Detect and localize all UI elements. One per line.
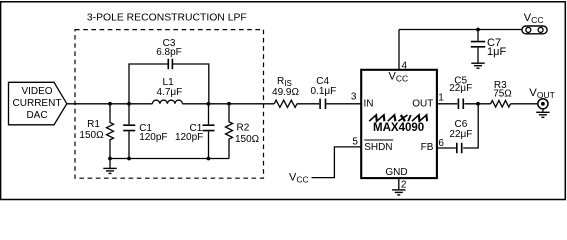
ground (VOUT) <box>536 112 549 117</box>
wire: OUT to C5 <box>437 103 457 105</box>
svg-text:150Ω: 150Ω <box>79 130 104 141</box>
svg-text:CURRENT: CURRENT <box>13 98 62 109</box>
capacitor C3 <box>168 59 172 69</box>
svg-text:R1: R1 <box>87 119 100 130</box>
dashed LPF box <box>75 30 264 179</box>
svg-text:VCC: VCC <box>289 171 309 184</box>
svg-text:L1: L1 <box>163 77 175 88</box>
ground (IC) <box>392 190 405 195</box>
wire: FB to C6 <box>437 147 456 149</box>
ground (filter) <box>109 159 111 168</box>
svg-text:GND: GND <box>385 167 407 178</box>
svg-text:49.9Ω: 49.9Ω <box>272 87 299 98</box>
node A (R1 top) <box>108 102 112 106</box>
node rail-R1 <box>108 157 112 161</box>
svg-text:120pF: 120pF <box>139 132 167 143</box>
resistor R2 <box>226 104 233 159</box>
node B (L1/C3/C1 left) <box>127 102 131 106</box>
svg-text:6.8pF: 6.8pF <box>156 47 182 58</box>
svg-text:150Ω: 150Ω <box>235 134 260 145</box>
MAXIM logo <box>369 115 429 121</box>
svg-text:C6: C6 <box>455 119 468 130</box>
svg-text:1: 1 <box>438 93 444 104</box>
resistor R1 <box>107 104 114 159</box>
DAC symbol <box>9 82 67 125</box>
op-amp U1 MAX4090 box <box>361 70 437 178</box>
capacitor C1 (right) <box>208 104 210 159</box>
svg-text:22μF: 22μF <box>449 129 472 140</box>
wire: pin2 gnd <box>398 178 400 189</box>
svg-text:4: 4 <box>402 60 408 71</box>
svg-text:VIDEO: VIDEO <box>21 86 52 97</box>
node D (R2 top) <box>227 102 231 106</box>
capacitor C3 branch wires <box>129 64 209 104</box>
wire: C5 to node <box>464 103 490 105</box>
resistor R3 <box>491 101 511 108</box>
VCC terminal <box>522 26 547 34</box>
wire: R3 to VOUT <box>511 103 539 105</box>
svg-text:DAC: DAC <box>26 110 47 121</box>
svg-text:22μF: 22μF <box>449 83 472 94</box>
svg-text:3-POLE RECONSTRUCTION LPF: 3-POLE RECONSTRUCTION LPF <box>87 13 247 24</box>
svg-text:1μF: 1μF <box>487 46 506 58</box>
node rail-C1L <box>127 157 131 161</box>
node rail-C1R <box>207 157 211 161</box>
wire: main signal line <box>67 103 361 105</box>
ground (C7) <box>471 63 484 68</box>
svg-text:IN: IN <box>364 99 374 110</box>
inductor L1 <box>152 100 182 104</box>
svg-text:R2: R2 <box>237 122 250 133</box>
svg-text:OUT: OUT <box>412 99 433 110</box>
capacitor C5 <box>458 99 463 110</box>
capacitor C4 <box>320 99 325 109</box>
node VCC/C7 <box>476 28 480 32</box>
capacitor C1 (left) <box>128 104 130 159</box>
VOUT terminal <box>538 99 548 109</box>
node C5/R3/C6 <box>476 102 480 106</box>
wire: pin4 VCC up <box>398 30 400 70</box>
svg-text:SHDN: SHDN <box>364 142 392 153</box>
svg-text:5: 5 <box>352 136 358 147</box>
svg-text:RIS: RIS <box>277 76 292 88</box>
svg-text:4.7μF: 4.7μF <box>157 87 183 98</box>
wire: VOUT gnd stem <box>542 108 544 111</box>
svg-text:VCC: VCC <box>524 12 544 25</box>
svg-text:75Ω: 75Ω <box>493 88 512 99</box>
svg-text:FB: FB <box>421 142 434 153</box>
wire: bottom rail <box>110 158 229 160</box>
capacitor C6 <box>457 143 462 154</box>
svg-text:3: 3 <box>351 91 357 102</box>
SHDN pin name (overline) <box>364 139 393 141</box>
svg-text:MAX4090: MAX4090 <box>373 122 424 134</box>
resistor RIS <box>274 100 297 107</box>
capacitor C7 <box>477 30 479 63</box>
svg-text:VOUT: VOUT <box>529 87 555 100</box>
svg-text:0.1μF: 0.1μF <box>311 86 337 97</box>
wire: VCC to SHDN pin5 <box>312 147 362 178</box>
svg-text:2: 2 <box>401 179 407 190</box>
node C (L1/C1 right) <box>207 102 211 106</box>
svg-text:VCC: VCC <box>389 71 409 84</box>
wire: top VCC rail <box>399 29 522 31</box>
svg-text:120pF: 120pF <box>175 132 203 143</box>
wire: C6 up to node <box>463 104 478 148</box>
